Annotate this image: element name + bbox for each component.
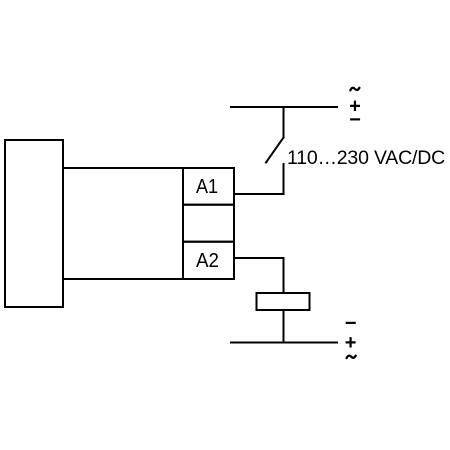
fuse F1 xyxy=(257,293,310,310)
svg-text:−: − xyxy=(349,109,361,131)
bottom supply rail xyxy=(231,342,337,344)
device rear flange rectangle xyxy=(5,140,63,307)
bottom supply polarity symbol AC (~) xyxy=(347,356,356,359)
svg-text:A2: A2 xyxy=(196,250,219,272)
wire fuse F1 to bottom supply rail xyxy=(283,310,285,343)
switch S1 blade xyxy=(266,138,284,163)
terminal A2 box xyxy=(183,242,234,279)
svg-text:+: + xyxy=(345,332,357,354)
wire A1 to switch lower contact xyxy=(234,164,284,194)
top supply rail xyxy=(231,106,337,108)
top supply polarity symbol AC (~) xyxy=(350,88,359,91)
svg-text:110…230 VAC/DC: 110…230 VAC/DC xyxy=(287,147,445,169)
wire switch upper contact to top supply rail xyxy=(283,107,285,138)
wire A2 to fuse F1 xyxy=(234,258,284,293)
terminal middle box xyxy=(183,205,234,242)
terminal A1 box xyxy=(183,168,234,205)
svg-text:A1: A1 xyxy=(196,176,218,198)
device body rectangle xyxy=(63,168,183,279)
